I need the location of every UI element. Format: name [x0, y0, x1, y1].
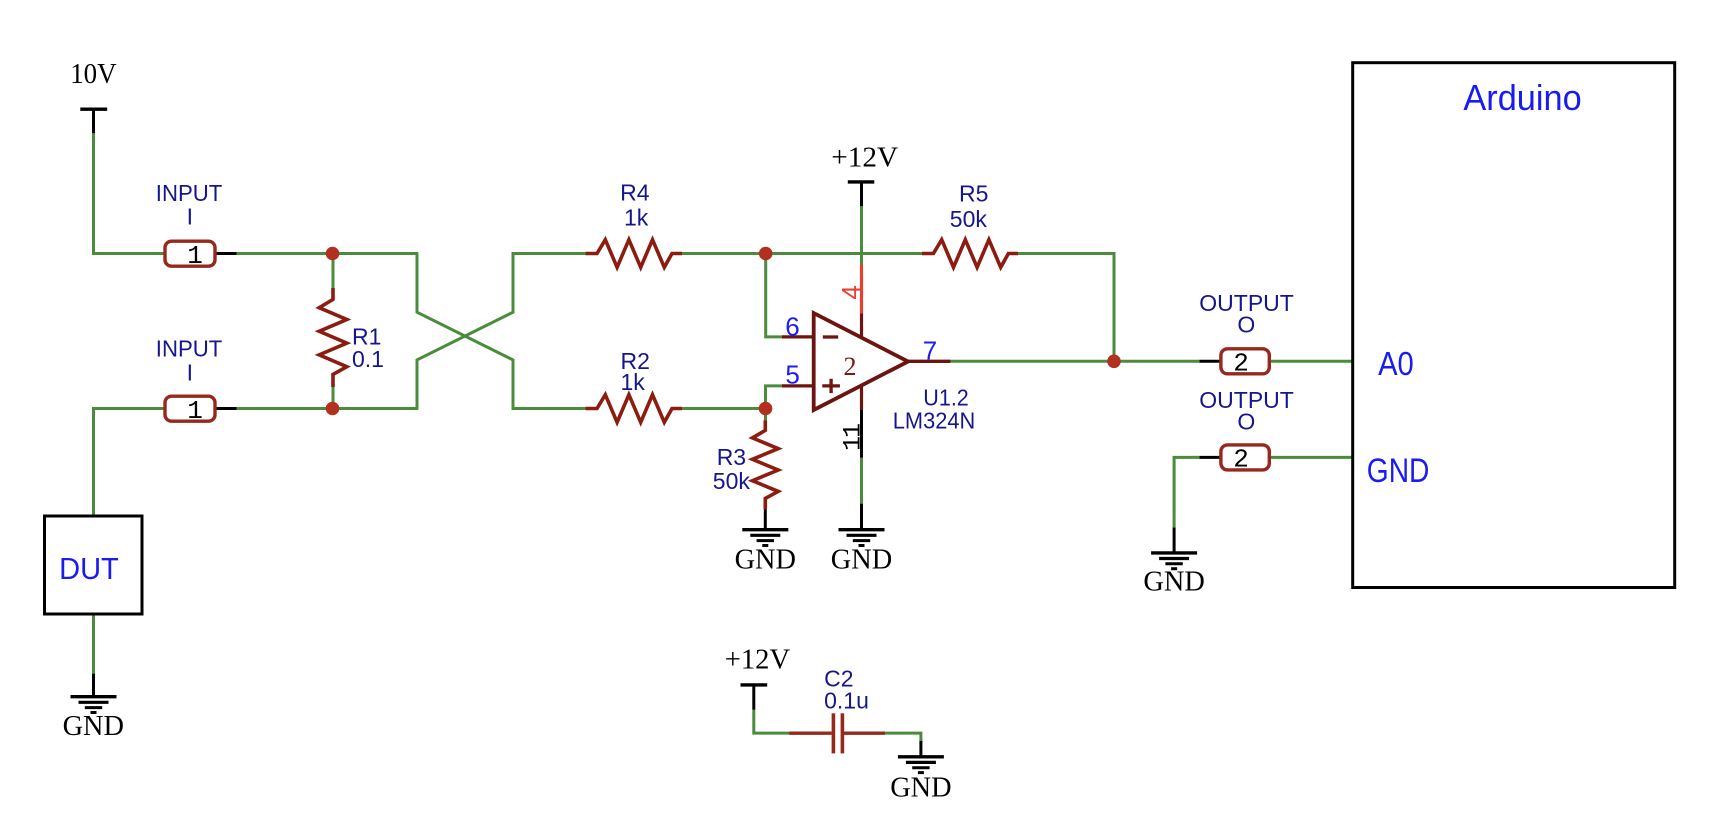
svg-text:I: I: [187, 359, 193, 385]
svg-text:INPUT: INPUT: [156, 180, 223, 206]
svg-text:2: 2: [844, 352, 857, 381]
svg-text:0.1: 0.1: [352, 346, 384, 372]
svg-text:6: 6: [785, 312, 799, 342]
svg-text:GND: GND: [1143, 566, 1204, 598]
svg-text:50k: 50k: [950, 206, 988, 232]
svg-text:1k: 1k: [624, 205, 649, 231]
svg-text:GND: GND: [63, 710, 124, 742]
svg-text:10V: 10V: [70, 58, 116, 90]
svg-text:R4: R4: [620, 179, 650, 205]
svg-text:1: 1: [187, 396, 203, 426]
svg-text:O: O: [1237, 312, 1255, 338]
svg-text:4: 4: [836, 285, 866, 299]
svg-text:GND: GND: [735, 543, 796, 575]
svg-text:O: O: [1237, 408, 1255, 434]
svg-text:DUT: DUT: [59, 551, 119, 586]
svg-text:2: 2: [1233, 349, 1249, 379]
svg-text:I: I: [187, 204, 193, 230]
svg-text:GND: GND: [831, 543, 892, 575]
svg-text:2: 2: [1233, 445, 1249, 475]
svg-text:+12V: +12V: [725, 643, 790, 675]
svg-text:+12V: +12V: [831, 142, 898, 174]
svg-text:5: 5: [785, 360, 799, 390]
svg-text:1: 1: [187, 241, 203, 271]
svg-text:GND: GND: [1367, 452, 1430, 490]
svg-text:R5: R5: [959, 180, 988, 206]
svg-text:1k: 1k: [621, 369, 646, 395]
svg-text:Arduino: Arduino: [1463, 77, 1581, 118]
svg-text:R3: R3: [717, 444, 746, 470]
svg-text:U1.2: U1.2: [923, 385, 969, 411]
svg-text:50k: 50k: [713, 468, 751, 494]
svg-text:11: 11: [839, 424, 868, 451]
svg-text:A0: A0: [1378, 345, 1414, 382]
svg-text:GND: GND: [890, 772, 951, 804]
svg-text:7: 7: [923, 336, 937, 366]
svg-text:LM324N: LM324N: [893, 408, 975, 434]
svg-text:INPUT: INPUT: [156, 336, 223, 362]
svg-text:0.1u: 0.1u: [824, 687, 869, 713]
